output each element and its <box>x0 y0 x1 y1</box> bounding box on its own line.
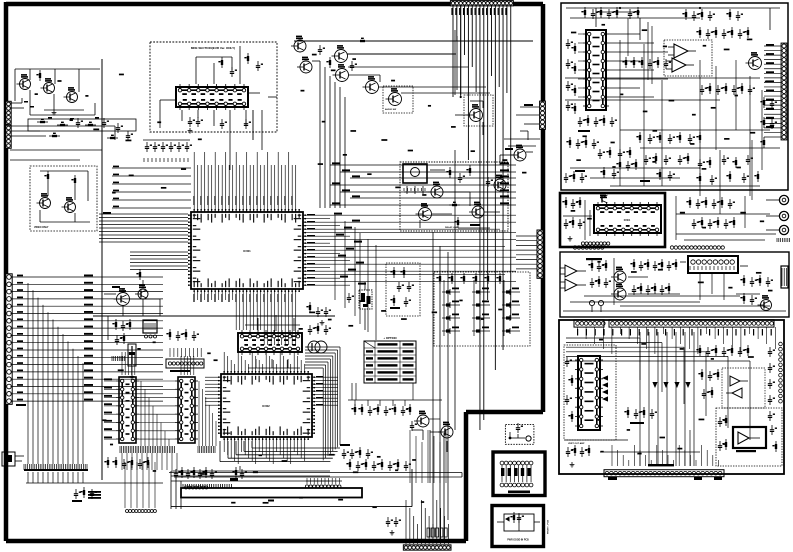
wire P101 leads <box>10 98 34 108</box>
label cn902 <box>648 464 674 466</box>
connector P401 top <box>450 1 513 6</box>
components near Q61 <box>430 422 453 452</box>
wire strips right drops <box>199 381 216 446</box>
wire E mid verticals <box>640 332 694 466</box>
transistor Q50 <box>306 341 327 353</box>
box deflection section <box>559 320 784 474</box>
capacitor C602 <box>486 177 493 187</box>
wire IC2 elbow bus to right <box>305 347 340 460</box>
wire q421 nets <box>404 419 440 440</box>
op-amp U901a <box>560 265 586 277</box>
dotted box comb filter <box>386 263 420 316</box>
connector P502 bottom <box>126 510 157 513</box>
resistor R302 <box>71 175 76 186</box>
transistor Q201 <box>17 74 31 89</box>
wire strips left stubs <box>104 378 116 439</box>
capacitor C706 <box>196 117 203 127</box>
op-amp U1402b <box>726 388 742 398</box>
RCA jack J2 <box>779 211 788 220</box>
wire ic801 top nets <box>570 12 700 40</box>
wires P401 labels <box>451 8 506 15</box>
wire nested bus left of IC2 <box>171 471 330 509</box>
labels below CN902 <box>608 477 722 480</box>
connector row CN901a <box>574 320 605 327</box>
capacitor C401 <box>318 45 325 55</box>
wire IC003 top nets <box>245 315 300 331</box>
resistor R101 <box>37 119 48 124</box>
wire psu verticals center <box>620 40 762 196</box>
transistor Q403 <box>332 45 348 62</box>
components av sw right <box>740 275 773 305</box>
wire IC1 top pins up <box>194 152 296 209</box>
components av sw left <box>588 260 611 288</box>
wire long bus B <box>171 469 412 507</box>
resistor R110 <box>49 133 60 138</box>
components bottom bar cluster2 <box>230 466 247 481</box>
label front pcb <box>586 258 602 260</box>
delay-line dotted box <box>400 162 508 231</box>
RCA jack J3 <box>779 225 788 234</box>
wire IC2 bottom drops <box>224 440 305 464</box>
wire IC003 bottom nets <box>248 359 300 374</box>
transistor Q302 <box>62 197 76 212</box>
option table <box>364 341 416 383</box>
box service connector <box>493 452 545 496</box>
wire MDE bottom nets <box>160 100 246 170</box>
transistor Q603 <box>469 202 484 218</box>
wire psu mid verticals2 <box>628 18 652 84</box>
wire P601 stubs <box>516 236 537 269</box>
wire psu top rail <box>566 7 780 30</box>
wire diode matrix verticals <box>444 280 504 336</box>
capacitor C51 <box>308 323 331 335</box>
connector P102 <box>6 125 11 148</box>
svg-text:AUDIO SW: AUDIO SW <box>385 108 397 111</box>
connector P101 <box>6 101 11 124</box>
indicator LEDs <box>589 300 603 312</box>
wire IC1 left lower stubs <box>130 252 188 270</box>
wires P401 vertical drops <box>453 5 511 430</box>
resistor network RN501 hatch <box>24 464 88 470</box>
wires fan to left elbows <box>460 5 462 98</box>
components psu lower row2 <box>598 147 671 165</box>
transistor Q402 <box>297 57 312 73</box>
svg-text:DELAY LINE: DELAY LINE <box>445 226 458 229</box>
wire ladder between strips <box>139 381 175 446</box>
wire E bottom nets <box>565 430 730 466</box>
svg-text:MDE SECTION(EUR Ver. ONLY): MDE SECTION(EUR Ver. ONLY) <box>191 46 235 50</box>
wire av sw nets <box>563 258 786 311</box>
components psu extra row2 <box>564 167 759 185</box>
connector CN601 row <box>581 242 609 245</box>
components below IC801 <box>578 115 617 132</box>
components E bottom left <box>566 445 590 467</box>
connector P504 bottom edge <box>403 545 451 550</box>
wire IC2 left stubs <box>205 377 218 405</box>
resistor R601 <box>446 167 451 178</box>
components h-drive <box>698 369 719 399</box>
IC IC901 switch sip <box>688 256 738 273</box>
connector CN505 circles row B <box>305 478 342 488</box>
svg-text:FRONT - PCB: FRONT - PCB <box>548 519 550 534</box>
wire cn902 risers <box>612 445 718 466</box>
resistor R602 <box>466 165 471 176</box>
capacitor C707 <box>220 119 227 129</box>
components psu extra row <box>566 137 753 171</box>
connector row CN901b <box>609 320 774 327</box>
wire q604 nets <box>500 148 533 165</box>
capacitor C015 <box>316 307 323 317</box>
wire IC1 top labels <box>193 196 292 205</box>
connector row above box D right <box>670 246 724 249</box>
components option row <box>351 404 411 416</box>
component cluster AV input <box>28 117 136 131</box>
resistor R702 <box>244 53 249 64</box>
IC IC002 OSD processor <box>218 371 315 440</box>
wire emitter bus <box>30 90 95 115</box>
ground G15 <box>320 320 325 325</box>
components bottom caps right <box>386 517 401 535</box>
wires P504 risers <box>406 500 448 544</box>
transistor Q801 <box>746 52 762 69</box>
transistor Q203 <box>64 87 78 102</box>
IC IC1401 vertical out <box>575 356 603 430</box>
components ic1401 left <box>565 357 573 422</box>
filter FL501 <box>143 320 157 338</box>
wire horizontal mid-left bus set <box>112 166 191 208</box>
transistor Q604 <box>511 145 526 161</box>
resistor R204 <box>36 70 41 81</box>
wire ic801 right fan <box>609 34 668 97</box>
dashed box Q407 <box>464 95 493 126</box>
wire IC1 right pins out <box>306 213 516 286</box>
wire E long horizontals <box>566 338 750 440</box>
wire q407 nets <box>455 30 483 135</box>
IC IC502 lamp driver B <box>175 377 198 443</box>
diode matrix rows <box>442 288 520 335</box>
op-amp U1402a <box>730 376 748 386</box>
capacitor C703 <box>256 61 263 71</box>
wire nested bus below IC2 <box>220 441 340 462</box>
wire IC1 bottom labels <box>193 294 292 302</box>
transistor Q602 <box>416 203 432 220</box>
capacitor C402 <box>350 61 357 71</box>
svg-text:+ OPTION: + OPTION <box>383 336 396 340</box>
IC DL001 delay line <box>403 164 427 194</box>
transistor Q620 <box>600 195 608 203</box>
components psu top right <box>682 9 743 21</box>
resistor R015 <box>306 302 311 313</box>
wire IC2 right stubs <box>315 376 338 406</box>
components mid psu <box>700 83 755 95</box>
wire right vertical jogs <box>335 215 376 340</box>
components psu top row <box>581 7 639 19</box>
video-only dashed box <box>30 166 97 231</box>
components right mid column <box>760 97 777 148</box>
wire rca nets <box>766 200 790 242</box>
connector row above box D left <box>573 246 604 249</box>
dashed box Q406 <box>383 86 413 113</box>
capacitor C708 <box>244 119 251 129</box>
bus bar rectangle <box>181 488 362 502</box>
MDE section dashed box <box>150 42 277 132</box>
hatch bus under strips A <box>120 446 215 453</box>
IC IC003 video driver <box>238 330 302 355</box>
wire cn901 drops <box>578 327 776 354</box>
components av mid column <box>630 259 677 271</box>
components right of IC2 <box>346 459 411 471</box>
arrows into ic1401 <box>602 375 608 401</box>
components top right psu <box>696 27 749 39</box>
transistor Q406 <box>386 88 402 105</box>
wires RN501 below <box>26 472 163 483</box>
wire sip risers <box>170 348 201 357</box>
wire right long bus <box>330 162 516 205</box>
capacitor C705 <box>188 117 195 127</box>
components E right caps column <box>768 347 775 421</box>
capacitor C701 <box>230 67 237 77</box>
wire video-only nets <box>40 171 90 222</box>
wire tone nets <box>676 140 776 240</box>
resistor bank right of IC801 <box>622 57 671 69</box>
RCA jack J1 <box>779 195 788 204</box>
dotted box diode matrix <box>434 272 530 346</box>
transistor Q305 <box>135 285 148 299</box>
resistor R401 <box>326 57 331 68</box>
wire Q304 nets <box>104 269 160 316</box>
box pwr-good <box>492 506 544 547</box>
transistor Q903 <box>611 284 626 300</box>
IC MDE IC701 <box>176 84 248 110</box>
wire row above IC1 gnd <box>143 140 190 162</box>
components audio left <box>562 197 585 241</box>
IC IC001 main microprocessor <box>188 209 306 292</box>
components audio-out lower <box>718 415 777 452</box>
op-amp U801b <box>666 58 694 72</box>
transistor Q901 <box>758 295 772 310</box>
op-amp U901b <box>560 279 586 291</box>
transistor Q601 <box>428 182 443 198</box>
wire MDE exit lines <box>248 93 277 150</box>
connector P9 left edge <box>2 452 24 466</box>
wire long mid verticals <box>430 150 455 540</box>
box av switch section <box>560 252 789 317</box>
connector CN504 circles row A <box>185 486 208 489</box>
capacitor row above IC1 <box>145 142 192 152</box>
wire option row net <box>348 383 442 406</box>
main board border outline <box>6 2 543 541</box>
transistor Q407 <box>467 104 483 121</box>
resistor R402 <box>357 38 368 43</box>
wire IC2 top risers <box>224 352 305 371</box>
components tone rows <box>686 197 735 209</box>
IC IC501 lamp driver A <box>116 377 139 443</box>
svg-text:VERT OUT AMP: VERT OUT AMP <box>568 442 585 445</box>
potentiometer VR501 <box>112 344 136 379</box>
components left of IC801 <box>566 39 576 114</box>
transistor Q421 <box>414 411 429 427</box>
components bottom-left group <box>104 457 149 469</box>
resistor row RN601 <box>436 273 501 284</box>
capacitor C601 <box>458 173 465 183</box>
resistor R604 <box>454 217 459 228</box>
connector edge box D <box>781 266 788 288</box>
resistor R603 <box>449 202 460 207</box>
wire audio nets <box>563 200 592 240</box>
dotted box audio-out lower <box>716 408 782 466</box>
components psu lower-mid <box>636 132 701 144</box>
svg-text:VIDEO ONLY: VIDEO ONLY <box>34 226 49 229</box>
resistor R701 <box>218 57 223 68</box>
wire top-left feed <box>15 59 102 330</box>
wire psu h-bus 1 <box>565 78 780 148</box>
crystal X001 <box>347 282 372 330</box>
wire top chain nets <box>294 41 533 208</box>
wire IC1 left pin stubs <box>99 212 188 242</box>
wire MDE top nets <box>196 46 240 84</box>
components tone row2 <box>692 217 735 229</box>
transistor Q902 <box>611 267 626 283</box>
arrow marks mid verticals <box>652 382 690 388</box>
wire strips top risers <box>122 352 194 375</box>
box audio amp small <box>733 427 766 452</box>
dotted box h-drive <box>722 368 765 408</box>
transistor Q405 <box>363 76 379 93</box>
transistor Q304 <box>114 288 130 305</box>
wires P501 vertical drops <box>28 283 83 464</box>
components comb filter <box>390 267 414 309</box>
label service box <box>508 491 530 494</box>
connector E right edge <box>779 342 783 403</box>
transistor Q605 <box>491 175 506 191</box>
capacitor C110 <box>116 123 123 133</box>
wires P501 fanout <box>11 275 164 402</box>
transistor Q401 <box>291 36 306 52</box>
IC IC601 audio amp <box>594 202 661 236</box>
wire ic801 left stubs <box>578 34 583 97</box>
wire cn901 labels <box>577 329 772 336</box>
components row under P501 <box>166 329 199 341</box>
IC RN401 sip array <box>166 359 204 372</box>
components under bus316 <box>112 319 131 345</box>
op-amp U801a <box>668 44 696 58</box>
components E center lower <box>624 407 657 424</box>
wires service connector <box>501 465 531 482</box>
resistor R111 <box>107 135 118 140</box>
label left harness <box>16 404 101 499</box>
ground G1 <box>52 110 57 115</box>
dotted box vertical-out <box>564 345 616 440</box>
capacitor C111 <box>126 131 133 141</box>
wire main left vertical bus <box>10 59 102 480</box>
wire bottom-left risers <box>125 462 155 508</box>
wire IC1 leftbottom cluster <box>93 299 335 340</box>
wire P801 stubs <box>764 46 781 137</box>
components E right upper <box>696 345 749 357</box>
box audio section <box>560 193 665 247</box>
capacitor C016 <box>324 307 331 317</box>
box power-supply section <box>561 3 788 190</box>
wire mid risers 430 <box>410 430 446 483</box>
box degauss small <box>505 423 534 444</box>
components bottom bar cluster <box>174 467 232 488</box>
ground G7 <box>188 128 193 133</box>
svg-text:PWR GOOD IN PCB: PWR GOOD IN PCB <box>507 540 529 542</box>
connector row CN902 <box>604 470 724 477</box>
wire box D long horizontals <box>570 262 770 306</box>
wire psu lower nets <box>570 168 760 186</box>
components glue cluster 2 <box>72 487 97 502</box>
svg-text:IC002: IC002 <box>262 404 270 408</box>
wire below hatch <box>122 453 177 470</box>
connector P602 right edge upper <box>540 101 546 129</box>
transistor Q404 <box>333 64 349 81</box>
connector P601 right edge <box>537 230 543 278</box>
wire delay-line nets <box>404 170 500 228</box>
components mid-bottom caps <box>340 444 373 459</box>
svg-text:IC601: IC601 <box>624 219 631 222</box>
svg-text:IC001: IC001 <box>243 249 251 253</box>
wire IC1 bottom pins down <box>194 292 296 345</box>
resistor R301 <box>44 171 49 182</box>
IC IC801 regulator vertical <box>583 30 609 110</box>
wire long bus A <box>169 473 462 478</box>
components av mid column2 <box>632 283 670 295</box>
wire left bus 1 <box>10 126 115 140</box>
wire p602 stubs <box>504 104 540 146</box>
box opamp dashed <box>664 40 712 76</box>
connector P801 right edge <box>781 43 787 140</box>
transistor Q202 <box>41 78 55 93</box>
connector P501 main left <box>6 274 12 405</box>
transistor Q301 <box>37 193 51 208</box>
